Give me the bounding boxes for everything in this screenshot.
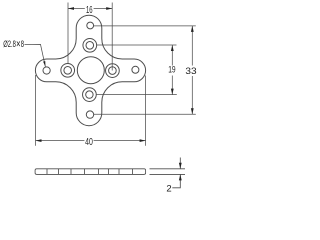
svg-text:19: 19 — [168, 65, 175, 75]
svg-text:2: 2 — [166, 183, 171, 194]
svg-text:33: 33 — [185, 66, 196, 76]
svg-text:Ø2.8✕8: Ø2.8✕8 — [3, 39, 24, 49]
svg-text:16: 16 — [86, 5, 93, 16]
svg-text:40: 40 — [85, 137, 93, 148]
